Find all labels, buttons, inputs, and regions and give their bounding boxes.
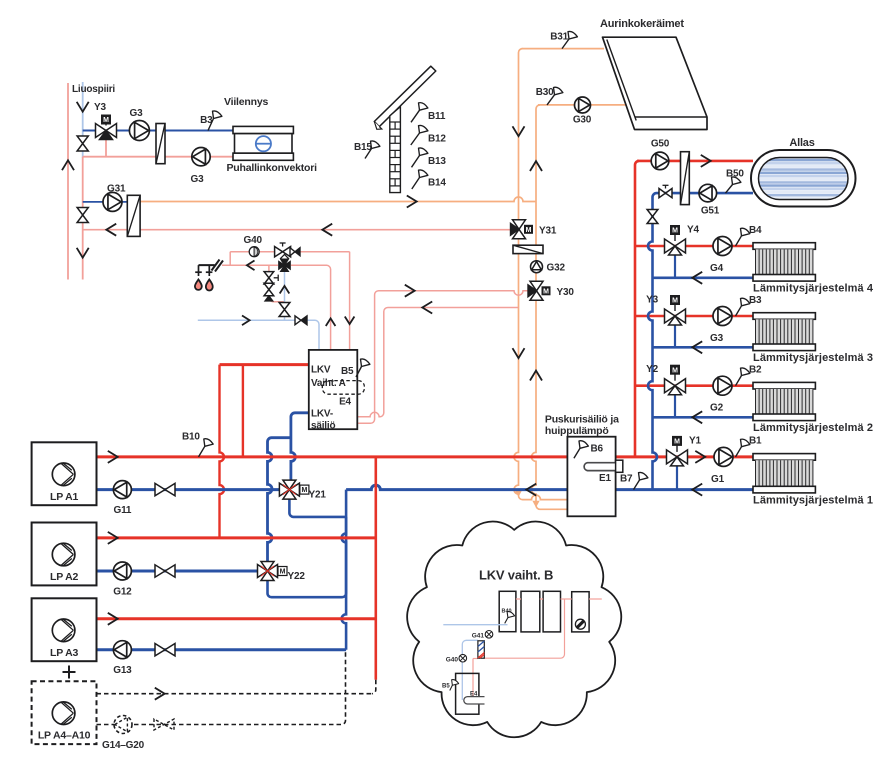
chimney <box>390 107 401 193</box>
radiator circuit 2 <box>753 382 815 389</box>
wire mix out right <box>291 265 331 350</box>
svg-text:LP A1: LP A1 <box>50 491 79 503</box>
sensor flag B1 <box>736 447 742 457</box>
wire cold water line <box>198 320 319 350</box>
wire tap line black <box>199 264 215 266</box>
pump G3 cooling <box>129 121 149 141</box>
sensor flag B3 <box>208 119 214 131</box>
flow arrow left c4 return <box>692 272 702 284</box>
valve Y22 <box>258 565 268 578</box>
cloud flag B51 <box>450 680 459 691</box>
flow arrowhead down right solar pipe <box>533 501 539 506</box>
flow arrow up cold feed <box>280 286 290 294</box>
wire long return line to Y31 <box>83 229 511 231</box>
cloud tank 1 <box>499 591 516 631</box>
svg-text:E4: E4 <box>470 692 478 698</box>
svg-text:E1: E1 <box>599 473 611 484</box>
svg-text:B10: B10 <box>182 432 200 443</box>
pump G14-G20 dashed <box>114 716 132 734</box>
wire Y1 bottom stub <box>676 465 678 490</box>
shutoff valve A1 <box>155 483 175 495</box>
wire long solar top line <box>140 197 536 202</box>
svg-text:LP A4–A10: LP A4–A10 <box>38 730 91 742</box>
wire LKV red down-leg <box>220 365 225 538</box>
heat exchanger pool <box>681 152 690 205</box>
flow arrow down solar downcomer low <box>513 348 525 358</box>
flow arrow right on Y30 line <box>405 285 415 297</box>
pump G32 <box>531 261 543 273</box>
wire G31 supply blue <box>83 201 128 203</box>
wire LKV red supply <box>220 363 309 366</box>
flow arrow left on return line mid <box>322 224 332 236</box>
wire relief branch vertical <box>269 265 285 301</box>
svg-text:Y3: Y3 <box>646 295 658 306</box>
sensor flag B12 <box>411 133 420 145</box>
wire main blue return right <box>346 485 753 490</box>
svg-text:LKV vaiht. B: LKV vaiht. B <box>479 568 553 583</box>
cloud pink pipe segments <box>516 598 521 600</box>
svg-text:M: M <box>280 569 286 576</box>
wire solar downcomer vertical <box>514 49 567 500</box>
pump G1 <box>714 447 733 466</box>
diamond connector <box>281 254 289 262</box>
wire circuit 4 blue return <box>653 276 754 279</box>
flow arrow up on brine line <box>62 160 74 170</box>
valve with stem pool <box>659 189 672 198</box>
svg-text:B7: B7 <box>620 474 633 485</box>
shutoff valve brine lower <box>77 208 88 223</box>
cloud tank 3 <box>543 591 560 632</box>
flow arrow right main red <box>108 451 118 463</box>
wire circuit 3 blue return <box>653 346 754 349</box>
sensor flag B3 <box>736 306 742 316</box>
heat pump LP A2 <box>32 523 97 586</box>
wire main blue return <box>97 488 283 491</box>
svg-text:Y21: Y21 <box>309 489 327 500</box>
pump G41 upper <box>485 631 493 639</box>
flow arrow down hot line <box>345 317 355 325</box>
svg-text:M: M <box>103 117 109 124</box>
cloud flag B40 <box>505 612 515 624</box>
heat pump LP A3 <box>32 598 97 661</box>
flow arrow left on return line <box>106 224 116 236</box>
pump G4 <box>713 237 732 256</box>
svg-text:säiliö: säiliö <box>311 420 335 431</box>
svg-text:B5: B5 <box>341 366 354 377</box>
flow arrow down solar downcomer <box>513 126 525 136</box>
svg-text:G2: G2 <box>710 403 724 414</box>
flow arrow up solar riser low <box>530 371 542 381</box>
wire circuit 2 red <box>635 384 753 387</box>
wire LKV blue branch to Y22 <box>268 438 291 562</box>
tap 1 droplet <box>195 280 202 290</box>
flow arrow down liuospiiri <box>77 102 89 112</box>
wire cold feed vertical <box>284 266 286 320</box>
svg-text:G12: G12 <box>113 586 132 597</box>
svg-text:Liuospiiri: Liuospiiri <box>72 84 115 95</box>
svg-text:G1: G1 <box>711 474 725 485</box>
wire LP A2 red <box>97 536 376 539</box>
wire LKV red link to main <box>242 365 244 457</box>
svg-text:Y4: Y4 <box>687 225 699 236</box>
svg-text:LP A2: LP A2 <box>50 571 79 583</box>
sensor flag B15 <box>365 149 372 159</box>
wire LP A4 dashed return <box>97 650 346 725</box>
wire collector lower line <box>538 104 626 106</box>
pump G3 <box>713 307 732 326</box>
svg-text:G40: G40 <box>244 235 263 246</box>
pump G12 <box>113 562 131 580</box>
wire Y2 bottom stub <box>674 394 676 418</box>
check valve cold water <box>295 316 301 325</box>
svg-text:B2: B2 <box>749 365 762 376</box>
svg-text:G14–G20: G14–G20 <box>102 740 145 751</box>
flow arrow right LP A3 red <box>108 613 118 625</box>
svg-text:Lämmitysjärjestelmä 4: Lämmitysjärjestelmä 4 <box>753 283 874 295</box>
svg-text:Puhallinkonvektori: Puhallinkonvektori <box>227 162 318 174</box>
pump G13 <box>113 641 131 659</box>
svg-text:E4: E4 <box>339 397 351 408</box>
wire G40 meter line <box>230 251 349 253</box>
tap 2 <box>208 265 210 276</box>
wire LKV exchanger upper-right pipe <box>357 308 518 417</box>
svg-text:huippulämpö: huippulämpö <box>545 425 609 437</box>
flow arrow left c2 return <box>692 411 702 423</box>
valve Y30 <box>530 281 543 291</box>
solar collector Aurinkokeraimet <box>603 37 708 129</box>
svg-text:B1: B1 <box>749 436 762 447</box>
cloud pink loop <box>484 599 565 658</box>
check valve G40 <box>290 248 295 256</box>
svg-text:G30: G30 <box>573 115 592 126</box>
wire cooling return salmon <box>83 156 234 158</box>
flow arrow right cold water <box>242 316 250 326</box>
wire LP A3 red <box>97 617 376 620</box>
svg-text:Y1: Y1 <box>689 435 701 446</box>
cloud pink drop <box>472 659 474 700</box>
element E1 <box>584 463 615 471</box>
svg-text:LKV: LKV <box>311 365 331 376</box>
sensor flag B4 <box>736 236 742 246</box>
wire Y30 left line <box>357 291 528 424</box>
svg-text:B11: B11 <box>428 111 446 122</box>
svg-text:G50: G50 <box>651 139 670 150</box>
wire pool blue line <box>653 193 754 212</box>
svg-text:B5: B5 <box>442 684 450 690</box>
flow arrow right dashed supply <box>155 688 165 700</box>
wire circuit 4 red <box>635 245 753 248</box>
sensor flag B2 <box>736 376 742 386</box>
radiator circuit 1 <box>753 454 815 461</box>
valve Y21 <box>279 483 289 496</box>
wire LP A3 blue <box>97 648 347 651</box>
mixing valve 4-way <box>279 261 285 269</box>
sensor flag B13 <box>412 156 420 168</box>
tank LKV Vaiht A <box>309 350 358 429</box>
wire circuit 2 blue return <box>653 416 754 419</box>
meter G40 <box>249 247 259 257</box>
valve Y4 3-way <box>665 239 686 253</box>
wire hot out to LKV tank <box>349 252 351 350</box>
wire liuospiiri right vertical top (cold) <box>82 82 84 158</box>
tank Puskurisailio <box>567 437 615 517</box>
safety valve <box>264 283 274 295</box>
pump G51 <box>699 184 717 202</box>
svg-text:Lämmitysjärjestelmä 2: Lämmitysjärjestelmä 2 <box>753 422 873 434</box>
wire Y3 bottom stub c3 <box>674 324 676 347</box>
fan convector box <box>233 126 293 133</box>
wire Y21 bottom loop <box>289 498 346 517</box>
pump G3 convector <box>192 148 210 166</box>
cloud element E4 <box>464 697 485 704</box>
pool Allas <box>751 150 856 207</box>
svg-text:Y22: Y22 <box>288 571 306 582</box>
cloud blue drop <box>462 640 478 700</box>
wire solar collector top line <box>522 48 605 50</box>
pump G2 <box>713 376 732 395</box>
sensor flag B10 <box>199 446 205 457</box>
wire red manifold vertical <box>635 161 639 457</box>
svg-text:G13: G13 <box>113 665 132 676</box>
flow arrow right pool red <box>701 155 711 167</box>
wire Y4 bottom stub <box>674 254 676 278</box>
pump G40 lower <box>459 654 467 662</box>
valve Y31 <box>513 220 526 230</box>
svg-text:G41: G41 <box>472 633 485 640</box>
svg-text:M: M <box>543 288 549 295</box>
svg-text:M: M <box>672 228 678 235</box>
svg-text:G3: G3 <box>191 174 205 185</box>
valve Y3 3-way <box>96 124 117 138</box>
cloud mixer symbol <box>575 619 585 629</box>
shutoff valve pool vertical <box>647 210 658 224</box>
sensor flag B50 <box>726 185 733 194</box>
svg-text:Lämmitysjärjestelmä 1: Lämmitysjärjestelmä 1 <box>753 494 873 506</box>
sensor flag B7 <box>634 480 640 490</box>
svg-text:B31: B31 <box>550 32 568 43</box>
svg-text:LP A3: LP A3 <box>50 647 79 659</box>
sensor flag B14 <box>412 178 420 190</box>
valve Y1 3-way <box>667 450 688 464</box>
svg-text:M: M <box>301 487 307 494</box>
heat pump LP A4-A10 <box>32 681 97 744</box>
svg-text:B13: B13 <box>428 156 446 167</box>
pump G11 <box>113 481 131 499</box>
wire Y3 bottom stub <box>105 137 107 157</box>
cloud tank 4 <box>572 592 589 632</box>
heat exchanger solar <box>513 245 543 253</box>
svg-text:Y3: Y3 <box>94 102 106 113</box>
pump G30 <box>575 97 591 113</box>
svg-text:G3: G3 <box>130 108 144 119</box>
flow arrow right main red at tank <box>695 451 705 463</box>
svg-text:Vaiht. A: Vaiht. A <box>311 378 346 389</box>
svg-text:Viilennys: Viilennys <box>224 96 268 108</box>
sensor flag B6 <box>574 448 580 458</box>
shutoff valve cold feed <box>279 303 290 317</box>
shutoff valve A2 <box>155 565 175 577</box>
shutoff valve A3 <box>155 644 175 656</box>
svg-text:Aurinkokeräimet: Aurinkokeräimet <box>600 18 684 30</box>
svg-text:G3: G3 <box>710 333 724 344</box>
element E4 dashed <box>322 381 364 395</box>
sensor flag B30 <box>547 95 555 105</box>
wire G40 loop vertical <box>229 252 231 266</box>
sensor flag B5 <box>356 367 362 378</box>
svg-text:M: M <box>674 439 680 446</box>
cloud bottom tank <box>456 673 479 714</box>
valve with stem above mixer <box>275 247 291 257</box>
svg-text:B3: B3 <box>749 295 762 306</box>
svg-text:B4: B4 <box>749 225 762 236</box>
svg-text:Allas: Allas <box>789 137 814 149</box>
flow arrow down liuospiiri lower <box>77 248 89 258</box>
radiator circuit 4 <box>753 243 815 250</box>
pipe break slashes <box>212 260 224 272</box>
svg-text:M: M <box>672 298 678 305</box>
svg-text:B14: B14 <box>428 178 446 189</box>
wire LP A4 dashed supply <box>97 693 372 695</box>
wire solar riser vertical <box>532 105 568 509</box>
pump G50 <box>651 152 669 170</box>
valve Y2 3-way <box>665 379 686 393</box>
cloud heat exchanger <box>478 641 484 658</box>
shutoff valve A4 dashed <box>154 719 174 730</box>
wire blue collector vertical low <box>342 517 347 650</box>
tap 2 droplet <box>206 280 213 291</box>
svg-text:Y31: Y31 <box>539 226 557 237</box>
svg-text:M: M <box>526 227 532 234</box>
heat exchanger HX1 cooling <box>156 124 165 164</box>
svg-text:B30: B30 <box>536 87 554 98</box>
valve Y3 3-way <box>665 309 686 323</box>
shutoff valve brine upper <box>77 136 88 151</box>
plus symbol <box>63 671 76 673</box>
svg-text:B12: B12 <box>428 134 446 145</box>
svg-text:G51: G51 <box>701 206 720 217</box>
wire liuospiiri right vertical bottom <box>82 157 84 280</box>
wire circuit 3 red <box>635 315 753 318</box>
cloud LKV vaiht B <box>407 521 621 737</box>
flow arrow up mix line <box>326 318 336 326</box>
svg-text:M: M <box>672 367 678 374</box>
wire liuospiiri left vertical (brine) <box>67 83 69 280</box>
relief valve with handle <box>264 272 274 284</box>
radiator circuit 3 <box>753 313 815 320</box>
wire pool red line <box>637 160 753 163</box>
flow arrow left tap line <box>247 261 255 271</box>
sensor pocket B7 <box>616 460 623 472</box>
wire red collector dashed tail <box>372 680 376 694</box>
wire tap supply salmon <box>222 264 278 266</box>
roof panel <box>374 66 436 126</box>
cloud tank 2 <box>521 591 540 632</box>
cloud blue line <box>443 624 507 626</box>
flow arrow left c3 return <box>692 341 702 353</box>
flow arrow left on 307 line <box>422 302 432 314</box>
tap 1 <box>198 265 200 276</box>
wire cooling supply blue <box>83 129 234 131</box>
wire red collector vertical <box>374 457 377 680</box>
svg-text:G4: G4 <box>710 263 724 274</box>
flow arrow right on long top line <box>407 196 417 208</box>
flow arrow right LP A2 red <box>108 532 118 544</box>
svg-text:LKV-: LKV- <box>311 409 333 420</box>
svg-text:G32: G32 <box>547 263 566 274</box>
flow arrow up solar riser <box>530 161 542 171</box>
svg-text:Y2: Y2 <box>646 364 658 375</box>
fan symbol <box>256 136 271 151</box>
wire Y22 bottom loop <box>268 490 347 598</box>
wire blue manifold vertical <box>648 211 657 490</box>
svg-text:B6: B6 <box>591 444 604 455</box>
flow arrow left main blue <box>526 484 536 496</box>
flow arrowhead down left solar pipe <box>516 491 522 496</box>
wire LKV blue pipe <box>291 413 309 481</box>
svg-text:G11: G11 <box>114 505 132 516</box>
heat exchanger HX2 brine <box>127 195 140 236</box>
heat pump LP A1 <box>32 442 97 505</box>
svg-text:Y30: Y30 <box>557 287 575 298</box>
svg-text:Puskurisäiliö ja: Puskurisäiliö ja <box>545 413 619 425</box>
flow arrow left main blue right <box>692 484 702 496</box>
svg-text:Lämmitysjärjestelmä 3: Lämmitysjärjestelmä 3 <box>753 352 873 364</box>
pump G31 <box>103 192 122 211</box>
wire LP A2 blue <box>97 570 259 573</box>
wire main red supply <box>97 455 754 458</box>
wire Y22 through vertical <box>266 561 269 581</box>
svg-text:G40: G40 <box>446 657 459 664</box>
sensor flag B11 <box>411 110 420 122</box>
sensor flag B31 <box>562 39 569 49</box>
